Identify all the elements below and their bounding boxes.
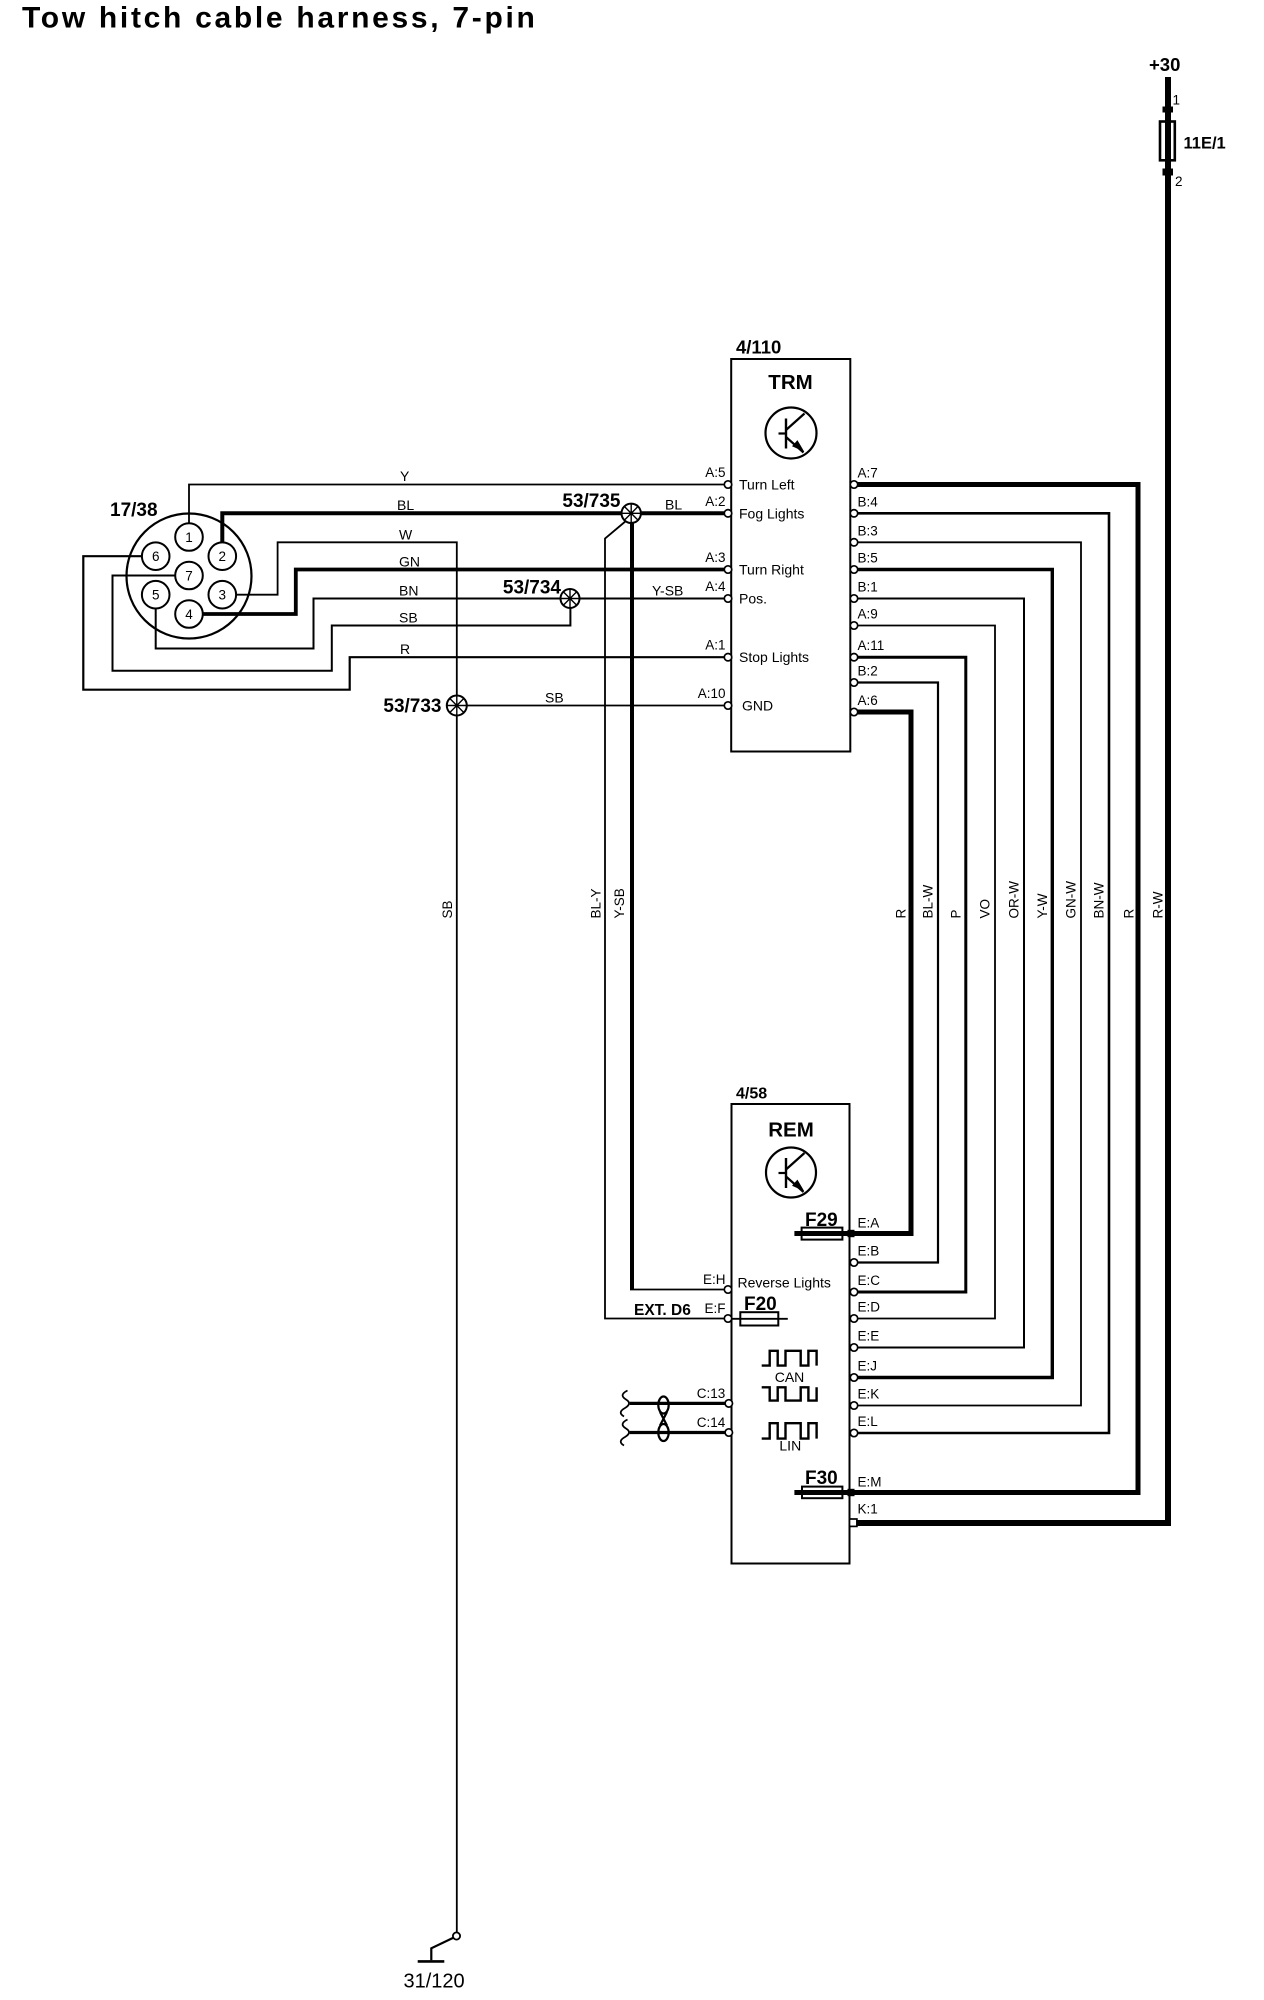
svg-text:VO: VO bbox=[978, 899, 993, 919]
svg-text:R: R bbox=[400, 641, 410, 657]
svg-text:7: 7 bbox=[185, 569, 193, 584]
svg-text:A:4: A:4 bbox=[705, 579, 726, 594]
svg-text:E:K: E:K bbox=[858, 1387, 880, 1402]
svg-text:Y-W: Y-W bbox=[1035, 893, 1050, 918]
svg-text:A:7: A:7 bbox=[858, 466, 878, 481]
wire Y-SB from splice 53/735 down to REM E:H bbox=[630, 517, 634, 1290]
TRM control-unit icon (transistor in circle) bbox=[766, 408, 817, 459]
svg-text:C:13: C:13 bbox=[697, 1386, 726, 1401]
twisted pair symbol bbox=[658, 1397, 668, 1442]
wire through fuse F30 to E:M bbox=[794, 1490, 1138, 1495]
svg-text:11E/1: 11E/1 bbox=[1184, 135, 1226, 153]
terminal K:1 bbox=[850, 1502, 878, 1527]
pin A:6 bbox=[850, 693, 877, 716]
svg-text:SB: SB bbox=[440, 900, 455, 918]
svg-text:3: 3 bbox=[219, 588, 227, 603]
splice 53/734 bbox=[561, 589, 580, 608]
fuse F20 bbox=[740, 1312, 778, 1325]
pin A:9 bbox=[850, 607, 877, 630]
splice 53/735 bbox=[622, 504, 641, 523]
pin A:7 bbox=[850, 466, 877, 489]
pin C:14 bbox=[697, 1415, 733, 1436]
wire GN-W from TRM B:3 to REM E:K bbox=[851, 542, 1081, 1405]
svg-text:Pos.: Pos. bbox=[739, 591, 767, 607]
wire BL-Y from splice 53/735 down to REM E:F bbox=[605, 521, 725, 1319]
svg-text:SB: SB bbox=[545, 690, 564, 706]
svg-text:A:6: A:6 bbox=[858, 693, 878, 708]
svg-text:R: R bbox=[894, 909, 909, 919]
wire BL-W from TRM B:2 to REM E:B bbox=[851, 683, 938, 1263]
svg-text:5: 5 bbox=[152, 588, 160, 603]
svg-text:F20: F20 bbox=[744, 1294, 777, 1315]
wire through fuse F29 to E:A bbox=[794, 1231, 911, 1236]
svg-text:TRM: TRM bbox=[768, 371, 812, 394]
svg-text:GND: GND bbox=[742, 698, 773, 714]
pin 5 of connector bbox=[142, 581, 170, 609]
svg-text:Turn Left: Turn Left bbox=[739, 477, 795, 493]
wire BN from pin 5 through splice 53/734 to TRM A:4 (Y-SB) bbox=[156, 599, 725, 649]
pin C:13 bbox=[697, 1386, 733, 1407]
svg-text:Turn Right: Turn Right bbox=[739, 562, 804, 578]
wire CAN-L to pin C:14 bbox=[630, 1431, 727, 1434]
pin E:E bbox=[850, 1329, 879, 1352]
wire W from pin 3 down to splice 53/733 and ground 31/120 (SB) bbox=[237, 542, 457, 1932]
svg-text:53/735: 53/735 bbox=[562, 491, 621, 512]
svg-text:BN: BN bbox=[399, 583, 418, 599]
svg-text:C:14: C:14 bbox=[697, 1415, 726, 1430]
continuation squiggle C:14 bbox=[621, 1420, 629, 1446]
wire BL from pin 2 through splice 53/735 to TRM A:2 bbox=[222, 513, 725, 543]
pin B:5 bbox=[850, 551, 877, 574]
REM control-unit icon (transistor in circle) bbox=[766, 1148, 816, 1198]
fuse 11E/1 bbox=[1160, 122, 1175, 161]
svg-text:E:D: E:D bbox=[858, 1300, 881, 1315]
pin 3 of connector bbox=[209, 581, 237, 609]
svg-text:F30: F30 bbox=[805, 1468, 838, 1489]
svg-text:A:9: A:9 bbox=[858, 607, 878, 622]
svg-text:B:4: B:4 bbox=[858, 494, 879, 509]
terminal E:M bbox=[848, 1475, 882, 1497]
svg-text:Fog Lights: Fog Lights bbox=[739, 505, 804, 521]
LIN bus symbol bbox=[762, 1423, 817, 1438]
svg-text:CAN: CAN bbox=[775, 1369, 805, 1385]
svg-text:6: 6 bbox=[152, 549, 160, 564]
svg-text:R: R bbox=[1122, 909, 1137, 919]
svg-text:B:5: B:5 bbox=[858, 551, 878, 566]
pin E:K bbox=[850, 1387, 879, 1410]
svg-text:GN: GN bbox=[399, 554, 420, 570]
svg-text:E:M: E:M bbox=[858, 1475, 882, 1490]
pin A:3 Turn Right bbox=[705, 550, 804, 578]
pin A:10 GND bbox=[698, 686, 773, 714]
svg-text:E:A: E:A bbox=[858, 1216, 880, 1231]
pin A:2 Fog Lights bbox=[705, 494, 804, 522]
svg-text:LIN: LIN bbox=[779, 1438, 801, 1454]
svg-text:E:L: E:L bbox=[858, 1414, 879, 1429]
wire R from pin 6 to TRM A:1 bbox=[83, 556, 725, 690]
wire R from TRM A:7 to REM E:M via F30 bbox=[794, 485, 1138, 1493]
svg-text:SB: SB bbox=[399, 610, 418, 626]
svg-text:E:B: E:B bbox=[858, 1244, 880, 1259]
svg-text:A:3: A:3 bbox=[705, 550, 725, 565]
continuation squiggle C:13 bbox=[621, 1391, 629, 1417]
svg-text:Y: Y bbox=[400, 468, 410, 484]
pin B:1 bbox=[850, 580, 877, 603]
svg-text:A:11: A:11 bbox=[858, 638, 885, 653]
svg-text:OR-W: OR-W bbox=[1007, 881, 1022, 919]
svg-text:F29: F29 bbox=[805, 1210, 838, 1231]
svg-text:E:F: E:F bbox=[704, 1301, 725, 1316]
fuse F29 bbox=[802, 1228, 843, 1240]
svg-text:E:H: E:H bbox=[703, 1272, 726, 1287]
svg-text:BN-W: BN-W bbox=[1092, 882, 1107, 918]
svg-text:31/120: 31/120 bbox=[404, 1971, 465, 1993]
wire Y from pin 1 to TRM A:5 bbox=[189, 485, 725, 525]
svg-text:+30: +30 bbox=[1149, 54, 1180, 75]
svg-text:53/734: 53/734 bbox=[503, 578, 562, 599]
wire CAN-H to pin C:13 bbox=[630, 1402, 727, 1405]
svg-text:A:2: A:2 bbox=[705, 494, 725, 509]
svg-text:E:E: E:E bbox=[858, 1329, 880, 1344]
pin 2 of connector bbox=[209, 542, 237, 570]
svg-text:1: 1 bbox=[1173, 93, 1181, 108]
control module TRM 4/110 box bbox=[731, 359, 850, 752]
pin 1 of connector bbox=[175, 523, 203, 551]
svg-text:E:C: E:C bbox=[858, 1273, 881, 1288]
wire GN from pin 4 to TRM A:3 bbox=[203, 570, 725, 615]
pin E:J bbox=[850, 1359, 877, 1382]
pin 6 of connector bbox=[142, 542, 170, 570]
wire P from TRM A:11 to REM E:C bbox=[851, 657, 966, 1292]
wire R-W from +30 through fuse 11E/1 down to REM K:1 bbox=[857, 77, 1169, 1523]
pin B:4 bbox=[850, 494, 878, 517]
pin 4 of connector bbox=[175, 600, 203, 628]
junction terminal 1 on +30 line bbox=[1163, 107, 1174, 113]
wire SB from pin 7 up to splice 53/734 bbox=[113, 576, 571, 671]
svg-text:BL-W: BL-W bbox=[921, 884, 936, 918]
svg-text:4: 4 bbox=[185, 607, 193, 622]
svg-text:4/58: 4/58 bbox=[736, 1086, 767, 1103]
CAN bus symbol bbox=[762, 1351, 817, 1366]
svg-text:P: P bbox=[948, 909, 963, 918]
svg-text:17/38: 17/38 bbox=[110, 500, 158, 521]
svg-text:R-W: R-W bbox=[1150, 891, 1165, 918]
svg-text:Y-SB: Y-SB bbox=[612, 888, 627, 918]
pin A:4 Pos. bbox=[705, 579, 767, 607]
pin B:3 bbox=[850, 523, 877, 546]
pin A:11 bbox=[850, 638, 884, 661]
svg-text:53/733: 53/733 bbox=[383, 696, 441, 717]
svg-text:Reverse Lights: Reverse Lights bbox=[738, 1275, 831, 1291]
pin E:C bbox=[850, 1273, 880, 1296]
svg-text:Tow hitch cable harness, 7-pin: Tow hitch cable harness, 7-pin bbox=[22, 2, 538, 35]
fuse F30 bbox=[802, 1487, 842, 1499]
splice 53/733 bbox=[447, 696, 467, 716]
svg-text:A:1: A:1 bbox=[705, 638, 725, 653]
svg-text:BL: BL bbox=[397, 497, 414, 513]
svg-text:B:1: B:1 bbox=[858, 580, 878, 595]
ground 31/120 bbox=[418, 1932, 460, 1961]
pin A:5 Turn Left bbox=[705, 465, 794, 493]
svg-text:1: 1 bbox=[185, 530, 193, 545]
svg-text:W: W bbox=[399, 527, 413, 543]
connector 17/38 outline bbox=[127, 514, 252, 639]
svg-text:Stop Lights: Stop Lights bbox=[739, 649, 809, 665]
pin 7 of connector bbox=[175, 562, 203, 590]
svg-text:A:5: A:5 bbox=[705, 465, 725, 480]
pin A:1 Stop Lights bbox=[705, 638, 809, 666]
svg-text:B:3: B:3 bbox=[858, 523, 878, 538]
control module REM 4/58 box bbox=[732, 1104, 850, 1564]
svg-text:Y-SB: Y-SB bbox=[652, 583, 683, 599]
svg-text:BL-Y: BL-Y bbox=[588, 888, 603, 918]
svg-text:REM: REM bbox=[768, 1119, 814, 1142]
svg-text:E:J: E:J bbox=[858, 1359, 878, 1374]
terminal E:A bbox=[848, 1216, 880, 1238]
svg-text:EXT. D6: EXT. D6 bbox=[634, 1302, 691, 1319]
wire SB from splice 53/733 to TRM A:10 bbox=[457, 705, 725, 707]
svg-text:2: 2 bbox=[219, 549, 227, 564]
wire Y-W from TRM B:5 to REM E:J bbox=[851, 570, 1052, 1378]
svg-text:A:10: A:10 bbox=[698, 686, 726, 701]
pin B:2 bbox=[850, 664, 877, 687]
svg-text:K:1: K:1 bbox=[858, 1502, 878, 1517]
pin E:D bbox=[850, 1300, 880, 1323]
junction terminal 2 on +30 line bbox=[1163, 169, 1174, 176]
wire OR-W from TRM B:1 to REM E:E bbox=[851, 599, 1024, 1348]
wire R from TRM A:6 to REM E:A via F29 bbox=[794, 712, 911, 1234]
svg-text:2: 2 bbox=[1175, 174, 1183, 189]
svg-text:4/110: 4/110 bbox=[736, 337, 781, 358]
svg-text:BL: BL bbox=[665, 497, 682, 513]
svg-text:GN-W: GN-W bbox=[1064, 881, 1079, 919]
pin E:H Reverse Lights bbox=[703, 1272, 831, 1293]
wire BN-W from TRM B:4 to REM E:L bbox=[851, 513, 1109, 1433]
wire through fuse F20 bbox=[732, 1318, 788, 1320]
pin E:B bbox=[850, 1244, 879, 1267]
svg-text:B:2: B:2 bbox=[858, 664, 878, 679]
pin E:F EXT. D6 bbox=[704, 1301, 731, 1322]
wire VO from TRM A:9 to REM E:D bbox=[851, 626, 995, 1319]
pin E:L bbox=[850, 1414, 878, 1437]
